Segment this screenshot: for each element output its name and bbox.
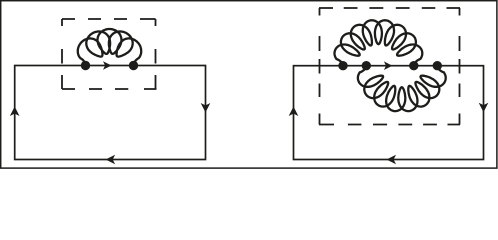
vertex dot [81, 61, 90, 70]
fermion loop (left diagram) [15, 66, 206, 160]
arrow up, left edge [289, 107, 299, 117]
vertex dot [129, 61, 138, 70]
gluon lower loop (right) [358, 66, 446, 111]
vertex dot [362, 61, 371, 70]
border frame [1, 1, 497, 168]
arrow down, right edge [479, 103, 489, 113]
vertex dot [409, 61, 418, 70]
arrow left, bottom edge [387, 155, 397, 165]
arrow right, top edge [384, 61, 393, 70]
arrow up, left edge [10, 107, 20, 117]
dashed counterterm box (left) [62, 19, 157, 89]
gluon upper loop (right) [335, 20, 423, 65]
gluon loop (left) [78, 29, 141, 66]
vertex dot [338, 61, 347, 70]
vertex dot [433, 61, 442, 70]
arrow right, top edge [103, 61, 112, 70]
fermion loop (right diagram) [294, 66, 484, 160]
dashed counterterm box (right) [319, 8, 460, 125]
arrow down, right edge [201, 103, 211, 113]
arrow left, bottom edge [106, 155, 116, 165]
